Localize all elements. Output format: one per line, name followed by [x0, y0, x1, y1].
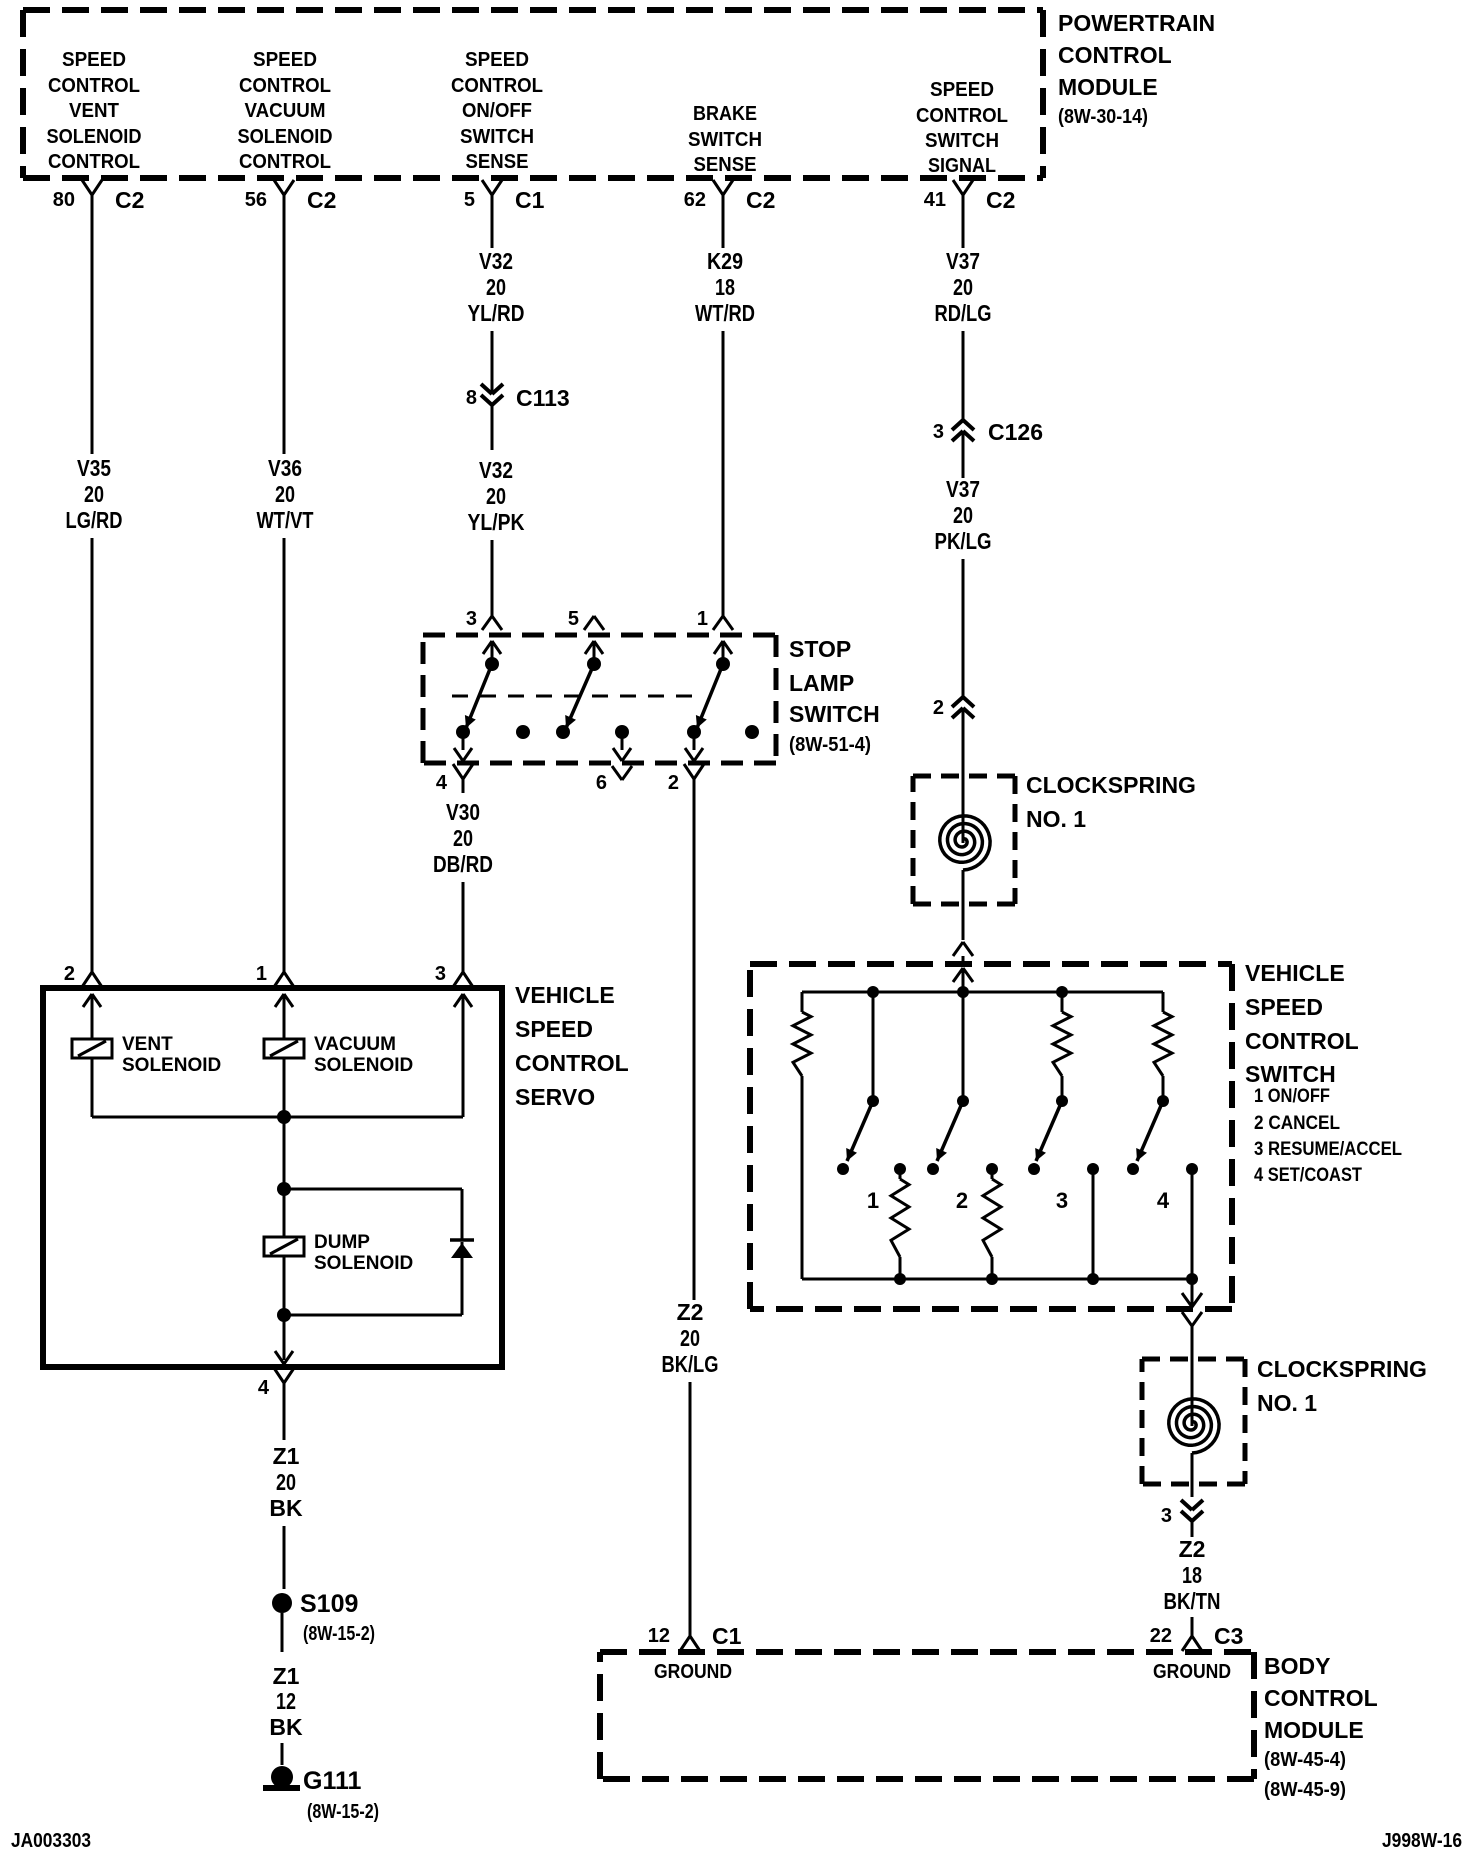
- svg-text:CONTROL: CONTROL: [239, 151, 331, 173]
- svg-text:S109: S109: [300, 1590, 358, 1618]
- svg-text:C3: C3: [1214, 1623, 1243, 1649]
- svg-text:JA003303: JA003303: [11, 1830, 91, 1852]
- svg-text:V30: V30: [446, 799, 480, 825]
- svg-text:CONTROL: CONTROL: [1264, 1685, 1378, 1711]
- svg-text:SOLENOID: SOLENOID: [122, 1055, 221, 1076]
- svg-text:YL/RD: YL/RD: [468, 300, 525, 326]
- svg-text:WT/VT: WT/VT: [257, 507, 314, 533]
- svg-text:C2: C2: [307, 187, 336, 213]
- svg-text:LAMP: LAMP: [789, 670, 854, 696]
- svg-text:20: 20: [486, 483, 506, 509]
- svg-text:C113: C113: [516, 385, 570, 411]
- svg-text:20: 20: [953, 502, 973, 528]
- svg-text:NO. 1: NO. 1: [1257, 1390, 1317, 1416]
- svg-text:CONTROL: CONTROL: [451, 75, 543, 97]
- svg-text:V32: V32: [479, 457, 513, 483]
- svg-text:1: 1: [867, 1188, 879, 1213]
- svg-text:CONTROL: CONTROL: [916, 105, 1008, 127]
- svg-text:PK/LG: PK/LG: [935, 528, 992, 554]
- svg-text:STOP: STOP: [789, 636, 851, 662]
- svg-text:LG/RD: LG/RD: [66, 507, 123, 533]
- svg-text:SPEED: SPEED: [515, 1016, 593, 1042]
- svg-text:Z2: Z2: [1179, 1536, 1206, 1562]
- svg-text:BK/LG: BK/LG: [662, 1351, 719, 1377]
- svg-text:SENSE: SENSE: [466, 151, 529, 173]
- svg-text:4: 4: [1157, 1188, 1170, 1213]
- svg-text:BK: BK: [269, 1714, 303, 1740]
- svg-text:CONTROL: CONTROL: [515, 1050, 629, 1076]
- svg-text:3: 3: [435, 963, 446, 985]
- svg-text:CONTROL: CONTROL: [1058, 42, 1172, 68]
- svg-text:SOLENOID: SOLENOID: [47, 126, 142, 148]
- svg-text:C2: C2: [746, 187, 775, 213]
- svg-text:SIGNAL: SIGNAL: [928, 155, 996, 177]
- svg-text:V36: V36: [268, 455, 302, 481]
- svg-text:SWITCH: SWITCH: [1245, 1061, 1336, 1087]
- svg-text:CLOCKSPRING: CLOCKSPRING: [1257, 1356, 1427, 1382]
- svg-text:BODY: BODY: [1264, 1653, 1330, 1679]
- svg-text:8: 8: [466, 387, 477, 409]
- svg-text:DUMP: DUMP: [314, 1232, 370, 1253]
- svg-text:3: 3: [466, 608, 477, 630]
- svg-text:2: 2: [64, 963, 75, 985]
- svg-text:CONTROL: CONTROL: [1245, 1028, 1359, 1054]
- svg-text:V32: V32: [479, 248, 513, 274]
- svg-text:C2: C2: [986, 187, 1015, 213]
- svg-text:(8W-15-2): (8W-15-2): [307, 1801, 379, 1823]
- svg-text:SWITCH: SWITCH: [925, 130, 999, 152]
- svg-text:41: 41: [924, 189, 946, 211]
- svg-text:VEHICLE: VEHICLE: [1245, 960, 1345, 986]
- svg-text:20: 20: [84, 481, 104, 507]
- svg-text:VENT: VENT: [122, 1034, 173, 1055]
- svg-text:SOLENOID: SOLENOID: [314, 1055, 413, 1076]
- svg-text:Z1: Z1: [273, 1443, 300, 1469]
- svg-text:POWERTRAIN: POWERTRAIN: [1058, 10, 1215, 36]
- svg-text:20: 20: [275, 481, 295, 507]
- svg-text:V37: V37: [946, 476, 980, 502]
- svg-text:(8W-51-4): (8W-51-4): [789, 734, 871, 756]
- svg-text:ON/OFF: ON/OFF: [462, 100, 532, 122]
- svg-text:BK/TN: BK/TN: [1164, 1588, 1221, 1614]
- svg-text:2 CANCEL: 2 CANCEL: [1254, 1113, 1340, 1134]
- svg-text:4: 4: [436, 772, 448, 794]
- svg-text:SPEED: SPEED: [1245, 994, 1323, 1020]
- svg-text:4: 4: [258, 1377, 270, 1399]
- svg-text:1 ON/OFF: 1 ON/OFF: [1254, 1086, 1330, 1107]
- svg-text:SWITCH: SWITCH: [688, 129, 762, 151]
- svg-text:20: 20: [276, 1469, 296, 1495]
- svg-text:3: 3: [1056, 1188, 1068, 1213]
- svg-text:Z1: Z1: [273, 1663, 300, 1689]
- svg-text:SOLENOID: SOLENOID: [314, 1253, 413, 1274]
- svg-text:BRAKE: BRAKE: [693, 103, 757, 125]
- svg-text:62: 62: [684, 189, 706, 211]
- svg-text:3: 3: [1161, 1505, 1172, 1527]
- svg-text:C2: C2: [115, 187, 144, 213]
- svg-text:(8W-15-2): (8W-15-2): [303, 1623, 375, 1645]
- svg-text:CLOCKSPRING: CLOCKSPRING: [1026, 772, 1196, 798]
- svg-text:2: 2: [668, 772, 679, 794]
- svg-text:CONTROL: CONTROL: [48, 151, 140, 173]
- svg-text:SPEED: SPEED: [253, 49, 317, 71]
- svg-text:(8W-45-9): (8W-45-9): [1264, 1779, 1346, 1801]
- svg-text:C126: C126: [988, 419, 1043, 445]
- svg-text:RD/LG: RD/LG: [935, 300, 992, 326]
- svg-text:20: 20: [680, 1325, 700, 1351]
- svg-text:C1: C1: [712, 1623, 742, 1649]
- svg-text:5: 5: [568, 608, 579, 630]
- svg-text:20: 20: [953, 274, 973, 300]
- svg-text:SWITCH: SWITCH: [460, 126, 534, 148]
- svg-text:56: 56: [245, 189, 267, 211]
- svg-text:4 SET/COAST: 4 SET/COAST: [1254, 1165, 1362, 1186]
- svg-text:22: 22: [1150, 1625, 1172, 1647]
- svg-text:GROUND: GROUND: [1153, 1661, 1231, 1683]
- svg-text:6: 6: [596, 772, 607, 794]
- svg-text:CONTROL: CONTROL: [48, 75, 140, 97]
- svg-text:5: 5: [464, 189, 475, 211]
- svg-text:MODULE: MODULE: [1058, 74, 1158, 100]
- svg-text:VACUUM: VACUUM: [245, 100, 326, 122]
- svg-text:SENSE: SENSE: [694, 154, 757, 176]
- svg-text:SOLENOID: SOLENOID: [238, 126, 333, 148]
- svg-text:VENT: VENT: [69, 100, 119, 122]
- svg-text:20: 20: [453, 825, 473, 851]
- svg-text:YL/PK: YL/PK: [468, 509, 525, 535]
- svg-text:SPEED: SPEED: [62, 49, 126, 71]
- svg-text:3: 3: [933, 421, 944, 443]
- svg-text:12: 12: [276, 1688, 296, 1714]
- svg-text:SWITCH: SWITCH: [789, 701, 880, 727]
- svg-text:K29: K29: [707, 248, 743, 274]
- svg-text:VEHICLE: VEHICLE: [515, 982, 615, 1008]
- svg-text:18: 18: [1182, 1562, 1202, 1588]
- svg-text:20: 20: [486, 274, 506, 300]
- svg-text:J998W-16: J998W-16: [1382, 1830, 1462, 1852]
- svg-text:2: 2: [933, 697, 944, 719]
- svg-text:CONTROL: CONTROL: [239, 75, 331, 97]
- svg-text:(8W-30-14): (8W-30-14): [1058, 106, 1148, 128]
- svg-text:VACUUM: VACUUM: [314, 1034, 396, 1055]
- svg-text:SERVO: SERVO: [515, 1084, 595, 1110]
- svg-text:SPEED: SPEED: [930, 79, 994, 101]
- svg-text:SPEED: SPEED: [465, 49, 529, 71]
- svg-text:NO. 1: NO. 1: [1026, 806, 1086, 832]
- svg-text:80: 80: [53, 189, 75, 211]
- svg-text:V37: V37: [946, 248, 980, 274]
- svg-text:DB/RD: DB/RD: [433, 851, 493, 877]
- svg-text:BK: BK: [269, 1495, 303, 1521]
- svg-text:GROUND: GROUND: [654, 1661, 732, 1683]
- svg-text:18: 18: [715, 274, 735, 300]
- svg-text:V35: V35: [77, 455, 111, 481]
- svg-text:C1: C1: [515, 187, 545, 213]
- svg-text:(8W-45-4): (8W-45-4): [1264, 1749, 1346, 1771]
- svg-text:1: 1: [697, 608, 708, 630]
- svg-text:G111: G111: [303, 1767, 361, 1795]
- svg-text:3 RESUME/ACCEL: 3 RESUME/ACCEL: [1254, 1139, 1402, 1160]
- svg-text:MODULE: MODULE: [1264, 1717, 1364, 1743]
- svg-text:WT/RD: WT/RD: [695, 300, 755, 326]
- svg-text:2: 2: [956, 1188, 968, 1213]
- svg-text:1: 1: [256, 963, 267, 985]
- svg-text:12: 12: [648, 1625, 670, 1647]
- svg-text:Z2: Z2: [677, 1299, 704, 1325]
